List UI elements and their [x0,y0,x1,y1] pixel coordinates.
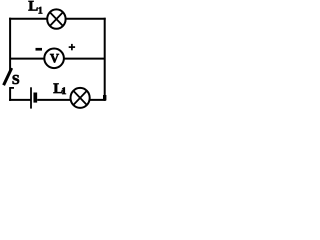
voltmeter U1 [44,49,64,69]
lamp L1 (top) [47,9,65,28]
svg-text:1: 1 [62,86,67,97]
wire left vertical (top corner to switch top contact) [9,18,11,71]
junction nub bottom-right corner [103,95,106,100]
wire voltmeter branch right [64,58,106,60]
wire bottom-right horizontal [89,99,106,101]
wire battery to lamp [37,99,70,101]
svg-text:V: V [50,51,59,65]
wire voltmeter branch left [10,58,44,60]
svg-text:1: 1 [38,5,43,16]
wire top-left horizontal [9,18,48,20]
battery B1 short thick plate (-) [33,93,37,103]
plus polarity mark [69,44,75,50]
svg-text:S: S [12,73,20,88]
wire top-right horizontal [65,18,106,20]
minus polarity mark [36,48,43,51]
battery B1 long plate (+) [30,87,32,108]
wire left vertical lower stub (switch to bottom corner) [9,87,11,101]
lamp L1 (bottom) [71,88,90,108]
wire bottom-left horizontal [9,99,30,101]
svg-text:L: L [28,0,38,15]
switch S bottom contact tick [10,87,15,89]
wire right vertical [104,18,106,101]
switch S blade [4,68,12,85]
